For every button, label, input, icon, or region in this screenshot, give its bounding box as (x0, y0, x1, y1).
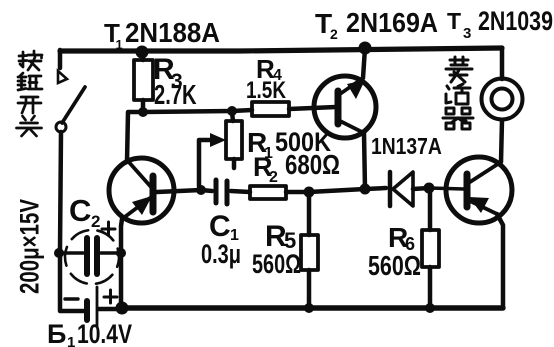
svg-text:3: 3 (463, 25, 471, 42)
svg-text:2N1039: 2N1039 (478, 7, 553, 37)
svg-text:1: 1 (67, 334, 75, 347)
svg-text:2: 2 (91, 212, 100, 231)
svg-text:560Ω: 560Ω (368, 250, 421, 281)
svg-text:10.4V: 10.4V (77, 320, 132, 347)
svg-text:200μ×15V: 200μ×15V (15, 199, 45, 294)
svg-text:1N137A: 1N137A (371, 135, 442, 160)
svg-text:C: C (209, 210, 231, 243)
svg-text:680Ω: 680Ω (285, 150, 340, 181)
svg-text:Б: Б (47, 319, 66, 347)
svg-text:1.5K: 1.5K (246, 76, 286, 104)
svg-text:T: T (447, 8, 461, 34)
svg-text:2: 2 (330, 26, 338, 42)
svg-text:2N169A: 2N169A (346, 7, 438, 39)
svg-text:2.7K: 2.7K (154, 80, 197, 111)
svg-text:0.3μ: 0.3μ (201, 239, 241, 270)
svg-text:C: C (69, 193, 91, 228)
svg-text:1: 1 (116, 37, 123, 52)
svg-text:560Ω: 560Ω (252, 250, 301, 280)
svg-text:2N188A: 2N188A (125, 17, 220, 48)
svg-text:2: 2 (269, 169, 278, 186)
